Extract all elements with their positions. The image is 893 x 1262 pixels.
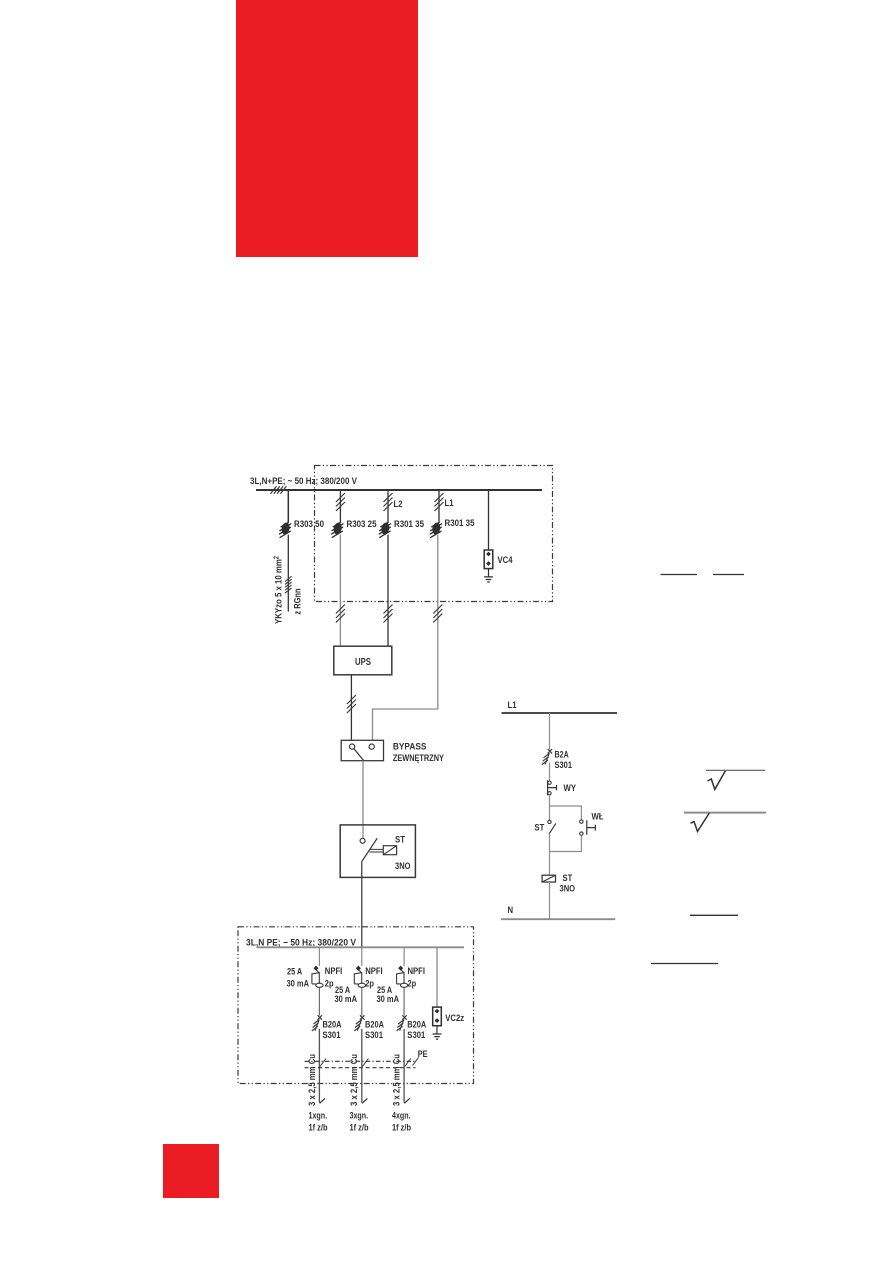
mechanical link: [370, 849, 384, 852]
wire drop L1: [438, 490, 440, 522]
label ST: [395, 835, 405, 846]
fuse-switch R301 35 (L1): [430, 522, 442, 538]
svg-text:3L,N+PE; ~ 50 Hz; 380/200 V: 3L,N+PE; ~ 50 Hz; 380/200 V: [250, 476, 358, 487]
cable mark above UPS 2: [384, 605, 393, 623]
svg-text:3NO: 3NO: [560, 884, 576, 895]
label WY: [564, 783, 577, 794]
UPS unit: [334, 646, 392, 675]
control wire from L1: [549, 713, 551, 781]
label 25A 30mA branch 2: [335, 985, 358, 1005]
label B20A S301 branch 2: [365, 1020, 384, 1042]
svg-text:3NO: 3NO: [395, 861, 411, 872]
parallel branch top wire: [550, 806, 582, 820]
wire drop L2: [387, 490, 389, 522]
control L1 rail: [502, 712, 618, 714]
wire bypass to contactor: [362, 761, 364, 839]
bypass switch box: [341, 740, 383, 760]
label BYPASS ZEWNETRZNY: [393, 742, 445, 765]
svg-text:ST: ST: [395, 835, 405, 846]
cable label branch 2: [349, 1054, 359, 1106]
wire to surge arrester VC2z: [436, 947, 438, 1007]
radical mark 2 check: [691, 813, 710, 831]
wire R303 25 to UPS: [339, 535, 341, 647]
svg-text:3xgn.: 3xgn.: [350, 1111, 369, 1122]
cable mark on incoming feed: [271, 486, 287, 494]
svg-text:BYPASS: BYPASS: [393, 742, 427, 753]
cable mark YKYzo: [285, 576, 292, 593]
breaker B20A branch 2: [354, 1015, 364, 1031]
load label branch 1: [309, 1111, 328, 1134]
wire below R303 50: [287, 535, 289, 612]
PE tick label end: [413, 1058, 419, 1066]
label NPFI 2p branch 1: [325, 966, 343, 990]
branch 2 wire: [361, 947, 363, 1102]
svg-text:2p: 2p: [325, 979, 334, 990]
label R301 35 (L1): [445, 518, 476, 529]
radical mark 2 overline: [684, 812, 766, 814]
fuse-switch R303 25: [331, 522, 343, 538]
load label branch 3: [392, 1111, 411, 1134]
svg-text:ST: ST: [563, 873, 573, 884]
cable mark UPS output: [347, 695, 356, 713]
radical mark 1 check: [708, 771, 726, 790]
neutral dashed line: [305, 1067, 416, 1069]
svg-text:S301: S301: [365, 1030, 384, 1041]
svg-text:R303 25: R303 25: [347, 519, 378, 530]
label NPFI 2p branch 2: [365, 966, 383, 990]
red header block: [236, 0, 418, 257]
control circuit: node L1: [508, 700, 518, 711]
svg-text:S301: S301: [555, 760, 573, 771]
fuse-switch R303 50: [279, 522, 291, 538]
svg-text:B20A: B20A: [323, 1020, 342, 1031]
main distribution dash-dot enclosure: [315, 466, 553, 602]
svg-text:2p: 2p: [408, 979, 417, 990]
label VC4: [498, 555, 514, 566]
svg-text:1xgn.: 1xgn.: [309, 1111, 328, 1122]
cable arrow branch 2: [362, 1098, 367, 1103]
label B20A S301 branch 3: [407, 1020, 426, 1042]
wire feed drop: [287, 490, 289, 522]
svg-text:VC2z: VC2z: [445, 1013, 464, 1024]
wire drop to UPS input 1: [339, 490, 341, 522]
svg-text:WŁ: WŁ: [592, 812, 604, 823]
bus L1 top: [256, 489, 542, 491]
PE tick branch 3: [405, 1059, 411, 1067]
breaker B2A S301: [542, 749, 552, 765]
annotation line F: [651, 963, 718, 965]
svg-text:L2: L2: [394, 499, 403, 510]
svg-text:R301 35: R301 35: [394, 519, 425, 530]
svg-text:30 mA: 30 mA: [377, 994, 400, 1005]
svg-text:1f z/b: 1f z/b: [309, 1123, 328, 1134]
svg-text:R303 50: R303 50: [294, 519, 324, 530]
svg-text:B20A: B20A: [365, 1020, 384, 1031]
coil in contactor: [383, 846, 396, 855]
label NPFI 2p branch 3: [408, 966, 426, 990]
label ST 3NO coil: [560, 873, 576, 895]
label PE: [418, 1049, 428, 1060]
control N rail: [501, 918, 615, 920]
net label 3L,N+PE bus: [250, 476, 358, 487]
wire contactor to lower bus: [361, 861, 363, 947]
svg-text:YKYzo 5 x 10 mm2: YKYzo 5 x 10 mm2: [274, 556, 285, 624]
annotation line E: [690, 914, 738, 916]
fuse-switch R301 35 (L2): [379, 522, 391, 538]
RCD NPFI 2p branch 1: [312, 966, 323, 988]
svg-text:25 A: 25 A: [287, 967, 302, 978]
label ST contact: [535, 823, 545, 834]
cable arrow branch 1: [320, 1098, 325, 1103]
svg-text:S301: S301: [323, 1030, 342, 1041]
label 25A 30mA branch 3: [377, 985, 400, 1005]
label 25A 30mA branch 1: [287, 967, 310, 990]
annotation line A: [661, 574, 698, 576]
svg-text:NPFI: NPFI: [365, 966, 383, 977]
lower bus: [257, 946, 465, 948]
wire ST contact to coil: [549, 834, 551, 876]
wire L1 bypass feed: [373, 535, 438, 741]
pushbutton WL (NO): [580, 820, 596, 835]
svg-text:PE: PE: [418, 1049, 428, 1060]
branch 3 wire: [403, 947, 405, 1102]
svg-text:30 mA: 30 mA: [287, 979, 310, 990]
breaker B20A branch 1: [312, 1015, 322, 1031]
wire WY to junction: [549, 795, 551, 820]
svg-text:WY: WY: [564, 783, 577, 794]
svg-text:1f z/b: 1f z/b: [392, 1123, 411, 1134]
RCD NPFI 2p branch 2: [354, 966, 365, 988]
cable mark drop L1: [435, 493, 444, 511]
load label branch 2: [350, 1111, 369, 1134]
surge arrester VC4: [484, 550, 493, 582]
svg-text:z RGnn: z RGnn: [293, 588, 304, 614]
svg-text:NPFI: NPFI: [325, 966, 343, 977]
label B2A S301: [555, 750, 573, 772]
wire UPS output: [350, 675, 352, 741]
svg-text:UPS: UPS: [355, 656, 371, 668]
label 3NO: [395, 861, 411, 872]
label R301 35 (L2): [394, 519, 425, 530]
PE tick branch 2: [362, 1059, 368, 1067]
contact ST (NO): [548, 820, 556, 834]
RCD NPFI 2p branch 3: [397, 966, 408, 988]
cable mark bypass feed: [433, 605, 442, 623]
label B20A S301 branch 1: [323, 1020, 342, 1042]
svg-text:1f z/b: 1f z/b: [350, 1123, 369, 1134]
svg-text:4xgn.: 4xgn.: [392, 1111, 411, 1122]
svg-text:ZEWNĘTRZNY: ZEWNĘTRZNY: [393, 753, 445, 764]
contactor contact: [360, 838, 377, 861]
breaker B20A branch 3: [397, 1015, 407, 1031]
control node N: [508, 905, 514, 916]
svg-text:R301 35: R301 35: [445, 518, 476, 529]
label WL: [592, 812, 604, 823]
svg-text:S301: S301: [407, 1030, 426, 1041]
label R303 50: [294, 519, 324, 530]
cable label z RGnn: [293, 588, 304, 614]
svg-text:B2A: B2A: [555, 750, 569, 761]
red footer block: [163, 1144, 219, 1198]
wire to surge arrester VC4: [488, 490, 490, 550]
cable label YKYzo 5 x 10 mm2: [274, 556, 285, 624]
pushbutton WY (NC): [548, 780, 557, 795]
svg-text:VC4: VC4: [498, 555, 514, 566]
parallel branch bottom wire: [550, 835, 582, 851]
svg-text:L1: L1: [508, 700, 518, 711]
contactor box ST: [340, 825, 415, 878]
lower distribution dash-dot enclosure: [238, 927, 474, 1084]
cable label branch 3: [392, 1054, 402, 1106]
net label 3L,N PE bus: [246, 938, 357, 949]
radical mark 1 overline: [706, 769, 765, 771]
cable mark above UPS 1: [336, 605, 345, 623]
svg-text:ST: ST: [535, 823, 545, 834]
svg-text:NPFI: NPFI: [408, 966, 426, 977]
wire coil to N: [549, 882, 551, 919]
svg-text:30 mA: 30 mA: [335, 994, 358, 1005]
node L1: [445, 498, 455, 509]
svg-text:N: N: [508, 905, 514, 916]
coil ST 3NO: [542, 875, 555, 882]
svg-text:2p: 2p: [365, 979, 374, 990]
cable mark drop L2: [384, 493, 393, 511]
node L2: [394, 499, 403, 510]
label R303 25: [347, 519, 378, 530]
cable mark drop 1: [336, 493, 345, 511]
PE dash-dot line: [305, 1060, 416, 1062]
cable label branch 1: [307, 1054, 317, 1106]
surge arrester VC2z: [433, 1007, 442, 1039]
svg-text:B20A: B20A: [407, 1020, 426, 1031]
PE tick branch 1: [320, 1059, 326, 1067]
cable arrow branch 3: [404, 1098, 409, 1103]
label VC2z: [445, 1013, 464, 1024]
svg-text:L1: L1: [445, 498, 455, 509]
annotation line B: [713, 574, 744, 576]
wire L2 to UPS: [387, 535, 389, 647]
branch 1 wire: [318, 947, 320, 1102]
